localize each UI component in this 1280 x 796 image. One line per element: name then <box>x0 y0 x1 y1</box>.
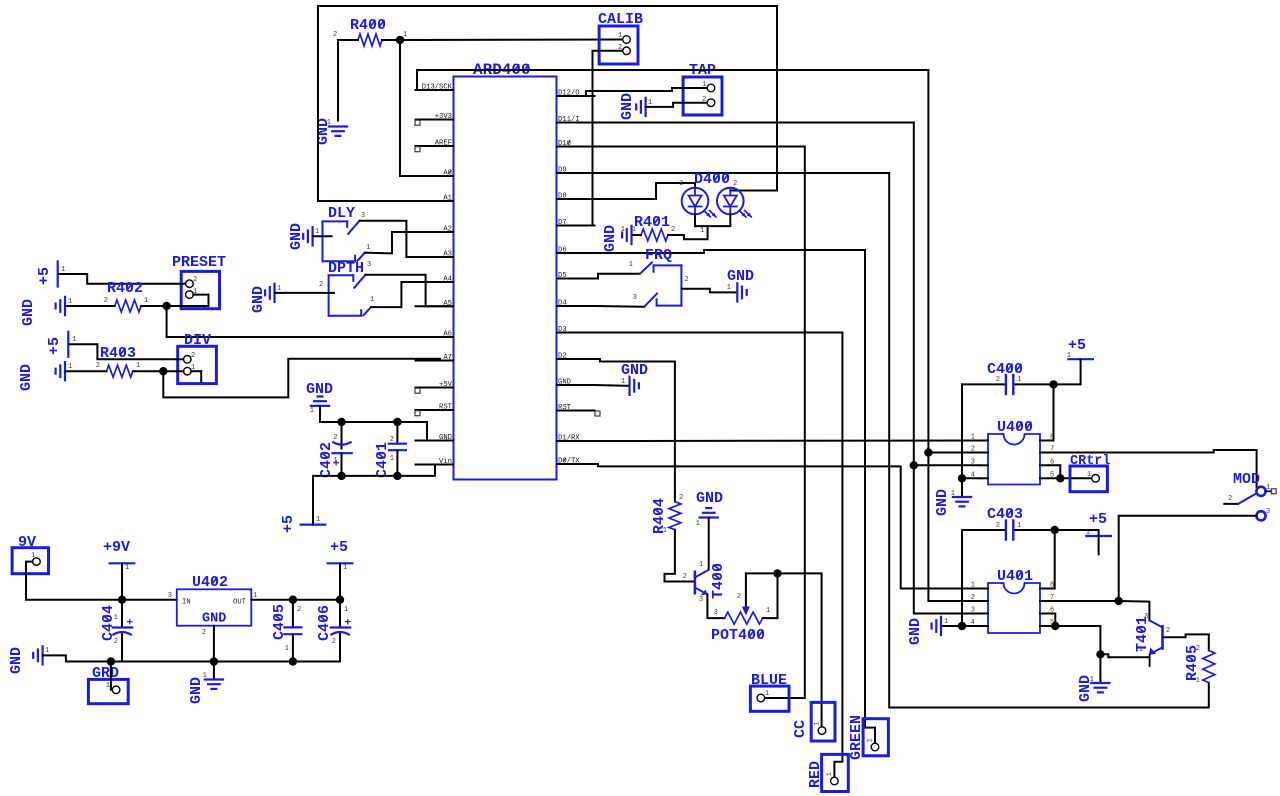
capacitor C406 (polarized) <box>339 600 341 628</box>
label C405 <box>271 604 288 640</box>
wire PRESET pin1 elbow <box>193 294 208 296</box>
wire D1/RX to U400 pin1 <box>595 440 980 443</box>
svg-text:1: 1 <box>370 296 374 304</box>
connector CC pin 1 <box>818 727 826 735</box>
pin D10 (right) of ARD400 <box>557 146 595 148</box>
pin RST (right) of ARD400 <box>557 410 595 412</box>
wire D3 to RED <box>595 333 843 778</box>
svg-text:GND: GND <box>602 225 619 252</box>
svg-text:1: 1 <box>951 490 955 498</box>
wire D11/I east <box>595 122 914 124</box>
label ARD400 <box>473 61 531 79</box>
label +5 (C400) <box>1068 337 1086 354</box>
pin 1 of U402 <box>253 592 257 600</box>
svg-text:AREF: AREF <box>435 140 452 148</box>
potentiometer POT400 <box>725 612 763 624</box>
junction 9V/C404/U402 <box>118 596 126 604</box>
svg-text:2: 2 <box>996 522 1000 530</box>
connector 9V pin 1 <box>33 558 41 566</box>
pin A1 (left) of ARD400 <box>416 200 454 202</box>
wire C403 trunk to U401 pin4 <box>962 530 980 626</box>
svg-text:1: 1 <box>310 407 314 415</box>
capacitor C401 <box>396 422 398 444</box>
ground at TAP <box>644 98 646 116</box>
junction GRD riser <box>107 657 115 665</box>
label GND (9V) <box>8 647 25 674</box>
connector GREEN box <box>863 719 888 756</box>
svg-text:D4: D4 <box>558 300 567 308</box>
label RED <box>807 761 824 788</box>
pin 3 of U402 <box>168 592 172 600</box>
label BLUE <box>751 672 787 689</box>
svg-text:D0/TX: D0/TX <box>558 458 580 466</box>
svg-text:GND: GND <box>619 93 636 120</box>
wire pin4 to GND left <box>941 625 962 627</box>
svg-text:IN: IN <box>182 599 191 607</box>
svg-text:C404: C404 <box>100 605 117 641</box>
label GND (R402) <box>20 299 37 326</box>
label R401 <box>634 214 670 231</box>
junction C406 top <box>336 596 344 604</box>
pin D5 (right) of ARD400 <box>557 278 595 280</box>
capacitor C403 <box>962 529 1006 531</box>
connector PRESET pin 1 <box>186 291 194 299</box>
connector GRD box <box>88 679 128 703</box>
pin A0 (left) of ARD400 <box>416 175 454 177</box>
wire junction to T401 emitter <box>1100 654 1149 657</box>
svg-text:2: 2 <box>671 226 675 234</box>
svg-text:1: 1 <box>344 606 348 614</box>
wire D11 trunk down to U401 pin3 <box>914 123 980 614</box>
wire R400 junction to CALIB pin 1 <box>400 39 623 42</box>
svg-text:2: 2 <box>96 362 100 370</box>
ground below U401 pin5 <box>1091 682 1109 684</box>
pin D11/I (right) of ARD400 <box>557 122 595 124</box>
label GND (U401 pin4) <box>907 618 924 645</box>
pin 8 of U401 <box>1040 588 1049 590</box>
supply +5 at U402 <box>328 562 353 564</box>
pin D3 (right) of ARD400 <box>557 332 595 334</box>
pin +5V (left) of ARD400 <box>416 387 454 389</box>
svg-text:3: 3 <box>367 261 371 269</box>
svg-text:2: 2 <box>333 434 337 442</box>
wire A1 riser <box>317 6 319 201</box>
wire +5 to PRESET pin2 <box>59 274 186 284</box>
ground at R403 <box>64 362 66 380</box>
pin D9 (right) of ARD400 <box>557 172 595 174</box>
ground at FRQ <box>736 283 738 301</box>
connector DIV pin 1 <box>184 367 192 375</box>
wire +5 riser at U402 <box>339 563 341 599</box>
svg-text:2: 2 <box>297 606 301 614</box>
wire R404 to T400 base <box>665 530 695 582</box>
label CRtrl <box>1070 454 1111 469</box>
svg-text:1: 1 <box>61 266 65 274</box>
svg-text:3: 3 <box>971 458 975 466</box>
wire top rail A1 to D400 <box>318 5 777 7</box>
wire junction to DIV pin1 <box>163 370 183 372</box>
svg-text:+5: +5 <box>330 539 348 556</box>
label GND (T400) <box>696 490 723 507</box>
label GND (TAP) <box>619 93 636 120</box>
wire U401 pin8 riser <box>1049 530 1055 589</box>
svg-text:1: 1 <box>45 647 49 655</box>
label GND (DLY) <box>288 223 305 250</box>
svg-text:+5: +5 <box>280 515 297 533</box>
label GREEN <box>848 715 865 760</box>
label GND (T401 emitter) <box>1077 675 1094 702</box>
svg-text:GND: GND <box>621 362 648 379</box>
svg-text:+: + <box>127 618 134 630</box>
pin A2 (left) of ARD400 <box>416 231 454 233</box>
label T401 <box>1134 616 1151 652</box>
wire U402 GND to ground <box>213 662 215 680</box>
label R403 <box>100 345 136 362</box>
junction C402 top <box>337 418 345 426</box>
connector MOD pin 2 lever <box>1224 503 1238 505</box>
wire D2 to R404 <box>595 359 675 502</box>
wire TAP GND <box>646 103 707 107</box>
connector CALIB box <box>599 26 638 64</box>
label DLY <box>328 205 355 222</box>
wire D400 anode2 drop <box>730 6 777 191</box>
pin D1/RX (right) of ARD400 <box>557 440 595 442</box>
svg-text:RST: RST <box>558 404 572 412</box>
capacitor C404 (polarized) <box>121 600 123 628</box>
label GND (R403) <box>18 364 35 391</box>
wire U400 pin7 to MOD pin1 <box>1049 450 1257 487</box>
wire CALIB pin2 to D7 <box>557 51 623 226</box>
label CC <box>792 720 809 738</box>
pin 2 of U402 <box>202 629 206 637</box>
wire A1 horizontal <box>318 200 454 202</box>
no-connect square RST left <box>415 411 420 416</box>
wire +5 rail to Vin <box>313 465 454 525</box>
junction C405 bottom <box>289 657 297 665</box>
svg-text:CC: CC <box>792 720 809 738</box>
pin 6 of U400 <box>1040 464 1049 466</box>
svg-text:1: 1 <box>826 772 834 776</box>
label GND (U400) <box>934 489 951 516</box>
svg-text:1: 1 <box>403 31 407 39</box>
svg-text:1: 1 <box>618 32 622 40</box>
svg-text:1: 1 <box>333 457 337 465</box>
pin 1 of U400 <box>980 440 989 442</box>
svg-text:1: 1 <box>68 363 72 371</box>
svg-text:1: 1 <box>1139 646 1143 654</box>
wire +5 to C400 rail <box>1054 359 1081 384</box>
wire U401 pin6 to pin5 <box>1049 614 1056 627</box>
label +5 (C403) <box>1089 511 1107 528</box>
label 9V <box>18 534 36 551</box>
wire D12/O to TAP pin1 <box>586 88 707 96</box>
svg-text:GND: GND <box>1077 675 1094 702</box>
svg-text:FRQ: FRQ <box>645 247 672 264</box>
wire DPTH pin1 to A4 <box>371 282 454 307</box>
wire U400 pin6 to pin5 <box>1049 465 1061 478</box>
svg-text:1: 1 <box>144 297 148 305</box>
wire ground rail right <box>214 661 340 663</box>
wire DPTH GND to common <box>275 292 335 294</box>
op-amp U400 body <box>988 434 1040 485</box>
connector DIV box <box>178 346 217 383</box>
label T400 <box>710 563 727 599</box>
junction U400 pin4/GND <box>958 474 966 482</box>
pin 3 of U401 <box>980 613 989 615</box>
connector CALIB pin 1 <box>623 36 631 44</box>
switch DLY <box>322 221 324 261</box>
label DPTH <box>328 260 364 277</box>
wire junction to A7 <box>163 359 453 398</box>
connector MOD pin 3 <box>1256 511 1265 520</box>
svg-text:2: 2 <box>191 352 195 360</box>
wire D6 to GREEN <box>595 250 876 743</box>
svg-text:2: 2 <box>202 629 206 637</box>
text IN <box>182 599 191 607</box>
svg-text:D8: D8 <box>558 193 567 201</box>
svg-text:3: 3 <box>168 592 172 600</box>
ground left of U401 pin4 <box>940 617 942 635</box>
junction U400 pin5/6 <box>1056 474 1064 482</box>
svg-text:1: 1 <box>700 227 704 235</box>
wire +5 to DIV pin2 <box>69 344 183 359</box>
connector TAP box <box>683 77 722 115</box>
svg-text:1: 1 <box>315 228 319 236</box>
wire +9V riser <box>121 563 123 599</box>
svg-text:A2: A2 <box>443 226 452 234</box>
svg-text:1: 1 <box>31 552 35 560</box>
svg-text:2: 2 <box>679 494 683 502</box>
wire T401 base to R405 <box>1163 634 1209 650</box>
svg-text:2: 2 <box>390 436 394 444</box>
ground at IC right GND pin <box>628 377 630 395</box>
label POT400 <box>711 627 765 644</box>
resistor R403 <box>107 365 133 377</box>
label GND of U402 <box>202 612 226 627</box>
wire POT400 pin1 riser <box>777 573 779 618</box>
svg-text:D10: D10 <box>558 140 571 148</box>
label +5 (PRESET) <box>36 267 53 285</box>
wire MOD pin1 terminal <box>1266 490 1272 492</box>
pin T401 emitter stub <box>1149 655 1151 667</box>
switch FRQ <box>680 265 682 305</box>
svg-text:D12/O: D12/O <box>558 90 580 98</box>
svg-text:1: 1 <box>1087 471 1091 479</box>
svg-text:1: 1 <box>114 614 118 622</box>
svg-text:1: 1 <box>727 284 731 292</box>
svg-text:2: 2 <box>1196 645 1200 653</box>
supply +5 at DIV <box>67 332 69 357</box>
svg-text:1: 1 <box>621 378 625 386</box>
wire GND to ground rail <box>43 655 111 661</box>
supply +5 at C403 <box>1086 535 1111 537</box>
pin D7 (right) of ARD400 <box>557 225 595 227</box>
pin 7 of U400 <box>1040 452 1049 454</box>
wire junction to A0 <box>400 40 454 176</box>
svg-text:2: 2 <box>685 276 689 284</box>
wire D0/TX to U401 pin1 <box>595 464 980 589</box>
svg-text:1: 1 <box>814 722 822 726</box>
connector GREEN pin 1 <box>871 743 879 751</box>
ground below R400 <box>329 125 347 127</box>
IC ARD400 body <box>454 77 557 480</box>
svg-text:2: 2 <box>971 594 975 602</box>
LED D400 B <box>717 188 744 215</box>
svg-text:1: 1 <box>106 682 110 690</box>
label U401 <box>997 568 1033 585</box>
junction C401 bottom <box>393 472 401 480</box>
svg-text:C406: C406 <box>316 605 333 641</box>
label C402 <box>318 442 335 478</box>
label GND (R401) <box>602 225 619 252</box>
svg-text:GND: GND <box>934 489 951 516</box>
svg-text:1: 1 <box>1017 522 1021 530</box>
svg-text:2: 2 <box>114 638 118 646</box>
svg-text:OUT: OUT <box>233 599 247 607</box>
svg-text:2: 2 <box>332 638 336 646</box>
wire DIV pin1 elbow <box>191 370 201 372</box>
wire D13 top rail <box>417 69 928 71</box>
connector BLUE box <box>750 686 789 711</box>
connector BLUE pin 1 <box>757 694 765 702</box>
svg-text:1: 1 <box>72 336 76 344</box>
wire trunk to U400 pin2 <box>928 452 979 454</box>
svg-text:+5: +5 <box>36 267 53 285</box>
svg-text:D5: D5 <box>558 272 567 280</box>
wire junction to GND <box>1099 654 1101 683</box>
svg-text:1: 1 <box>696 520 700 528</box>
svg-text:2: 2 <box>971 446 975 454</box>
pin D0/TX (right) of ARD400 <box>557 463 595 465</box>
label +5 (Vin) <box>280 515 297 533</box>
svg-text:GND: GND <box>18 364 35 391</box>
svg-text:PRESET: PRESET <box>172 254 226 271</box>
svg-text:DLY: DLY <box>328 205 355 222</box>
junction R402/PRESET/A6 <box>162 302 170 310</box>
svg-text:D11/I: D11/I <box>558 116 580 124</box>
svg-text:+5V: +5V <box>439 381 453 389</box>
ground at DPTH common <box>273 284 275 302</box>
connector DIV pin 2 <box>184 356 192 364</box>
wire trunk to U400 pin3 <box>914 464 980 466</box>
pin 1 of U401 <box>980 588 989 590</box>
wire D8 to D400 anode1 <box>595 183 696 199</box>
label R402 <box>107 280 143 297</box>
label C403 <box>987 506 1023 523</box>
junction U401 pin7 <box>1115 597 1123 605</box>
junction U402 GND <box>210 657 218 665</box>
ground at DLY common <box>312 227 314 245</box>
svg-text:C401: C401 <box>374 442 391 478</box>
transistor T401 <box>1161 626 1164 648</box>
wire FRQ common to GND <box>683 289 737 293</box>
ground above C402 <box>311 405 329 407</box>
label R404 <box>651 498 668 534</box>
svg-text:2: 2 <box>996 376 1000 384</box>
wire D13/SCK riser <box>416 70 418 90</box>
svg-text:1: 1 <box>1017 376 1021 384</box>
wire POT junction to CC <box>746 573 822 726</box>
junction C403/+5/U401 pin8 <box>1051 526 1059 534</box>
ground at power input <box>41 646 43 664</box>
pin D8 (right) of ARD400 <box>557 198 595 200</box>
svg-text:1: 1 <box>971 434 975 442</box>
pin A6 (left) of ARD400 <box>416 336 454 338</box>
connector CC box <box>811 702 835 741</box>
pin 5 of U401 <box>1040 625 1049 627</box>
label MOD <box>1233 471 1260 488</box>
svg-text:1: 1 <box>766 607 770 615</box>
svg-text:1: 1 <box>136 362 140 370</box>
svg-text:3: 3 <box>699 596 703 604</box>
label GND (IC right) <box>621 362 648 379</box>
svg-text:POT400: POT400 <box>711 627 765 644</box>
wire DPTH pin3 to A5 <box>366 275 454 307</box>
pin RST (left) of ARD400 <box>416 409 454 411</box>
pin 4 of U401 <box>980 625 989 627</box>
connector TAP pin 1 <box>707 84 715 92</box>
label GND (DPTH) <box>250 286 267 313</box>
svg-text:D3: D3 <box>558 326 567 334</box>
svg-text:+: + <box>345 618 352 630</box>
svg-text:1: 1 <box>663 527 667 535</box>
resistor R402 <box>115 300 141 312</box>
junction C400/+5/U400 pin8 <box>1049 380 1057 388</box>
wire DLY GND to common <box>313 235 332 237</box>
svg-text:1: 1 <box>316 516 320 524</box>
wire 9V to U402 IN <box>26 562 177 600</box>
pin A4 (left) of ARD400 <box>416 281 454 283</box>
wire D13 trunk down to U401 pin2 <box>928 70 979 601</box>
svg-text:2: 2 <box>1166 627 1170 635</box>
svg-text:1: 1 <box>125 564 129 572</box>
supply +9V <box>110 562 135 564</box>
label GND (C402 rail) <box>306 381 333 398</box>
supply +5 at Vin rail <box>301 523 326 525</box>
junction U401 pin4/GND <box>958 622 966 630</box>
label C400 <box>987 361 1023 378</box>
wire D4 to FRQ pin3 <box>595 305 645 308</box>
resistor R405 <box>1203 651 1215 683</box>
wire U402 OUT rail <box>251 599 340 601</box>
label PRESET <box>172 254 226 271</box>
ground at R401 <box>630 226 632 244</box>
wire rail to U400 pin8 <box>1049 384 1054 440</box>
pin D2 (right) of ARD400 <box>557 358 595 360</box>
svg-text:1: 1 <box>699 561 703 569</box>
pin Vin (left) of ARD400 <box>416 464 454 466</box>
pin 2 of U400 <box>980 452 989 454</box>
svg-text:3: 3 <box>679 180 683 188</box>
label U402 <box>192 574 228 591</box>
pin A5 (left) of ARD400 <box>416 305 454 307</box>
wire D5 to FRQ pin1 <box>595 274 640 279</box>
svg-text:2: 2 <box>1228 495 1232 503</box>
pin +3V3 (left) of ARD400 <box>416 119 454 121</box>
wire T400 collector to GND <box>708 518 710 570</box>
no-connect square RST right <box>595 411 600 416</box>
LED D400 A <box>682 188 709 215</box>
svg-text:3: 3 <box>714 609 718 617</box>
label C401 <box>374 442 391 478</box>
label CALIB <box>598 11 643 28</box>
svg-text:RST: RST <box>439 404 453 412</box>
wire pin5 to CRtrl <box>1049 477 1092 479</box>
svg-text:2: 2 <box>104 297 108 305</box>
wire D9 trunk <box>595 173 1209 708</box>
wire GRD riser <box>111 662 112 690</box>
junction R400/CALIB/A0 <box>396 36 404 44</box>
